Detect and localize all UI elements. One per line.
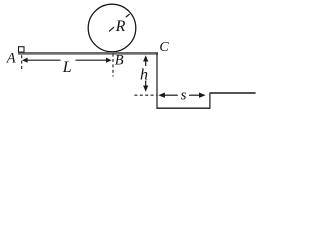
trench floor (bottom of drop) — [157, 107, 211, 109]
tabletop surface (gray) — [18, 52, 158, 55]
label L — [62, 59, 72, 76]
svg-text:L: L — [62, 59, 72, 76]
label A — [6, 50, 16, 66]
cliff edge (vertical wall below C) — [156, 53, 158, 109]
height arrow h (double-headed vertical) — [143, 55, 148, 92]
dashed landing-level line left of cliff — [134, 94, 156, 96]
dashed vertical line below B — [112, 54, 114, 77]
label h — [140, 67, 148, 84]
block at A (small square) — [19, 47, 25, 52]
distance arrow s (double-headed) — [158, 93, 205, 98]
label R — [115, 18, 126, 35]
svg-text:h: h — [140, 67, 148, 84]
svg-text:B: B — [115, 53, 124, 69]
distance arrow L (double-headed) — [22, 58, 112, 63]
label B — [115, 53, 124, 69]
dashed radius line inside ball — [109, 14, 130, 32]
label C — [159, 40, 169, 55]
landing platform surface — [210, 92, 256, 94]
svg-text:A: A — [6, 50, 16, 66]
svg-text:R: R — [115, 18, 126, 35]
dashed vertical line below A — [21, 55, 23, 71]
svg-text:C: C — [159, 40, 169, 55]
label s — [181, 87, 187, 103]
ball (circle) of radius R — [88, 4, 136, 52]
step (vertical riser of landing platform) — [209, 93, 211, 109]
svg-text:s: s — [181, 87, 187, 103]
